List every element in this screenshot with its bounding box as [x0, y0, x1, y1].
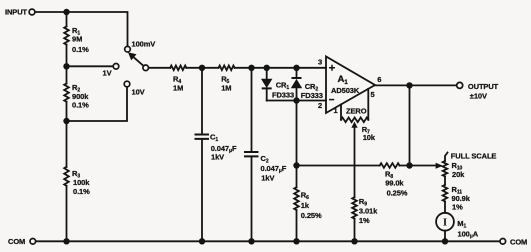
- wire : op-amp output to OUTPUT terminal: [375, 84, 457, 86]
- op-amp U1 A1 AD503K triangle: [326, 57, 375, 114]
- svg-text:0.047μF: 0.047μF: [261, 164, 287, 174]
- node : R1/R2 junction (1V tap): [63, 63, 69, 69]
- svg-text:0.1%: 0.1%: [72, 45, 89, 54]
- node : R6 to common: [293, 238, 299, 244]
- svg-text:FD333: FD333: [301, 91, 323, 100]
- wire : R10 to R11: [444, 176, 446, 184]
- meter M1 100uA: [436, 213, 454, 231]
- op-amp minus input symbol: [329, 99, 334, 101]
- svg-text:0.25%: 0.25%: [387, 189, 408, 198]
- svg-text:1M: 1M: [173, 83, 183, 92]
- svg-text:FD333: FD333: [272, 91, 294, 100]
- svg-text:10k: 10k: [363, 133, 376, 142]
- svg-text:3: 3: [318, 58, 322, 67]
- wiper arrow into R10: [436, 163, 442, 168]
- wire : pin 1 lead down: [340, 104, 342, 119]
- svg-text:1kV: 1kV: [211, 153, 224, 162]
- svg-text:1: 1: [334, 106, 338, 115]
- potentiometer R10 20k FULL SCALE: [445, 153, 448, 162]
- node : main rail to CR1: [264, 65, 270, 71]
- terminal COM left: [30, 239, 36, 245]
- resistor R4 1M: [170, 66, 186, 71]
- wire : diode rail to inverting input (pin 2): [267, 100, 326, 102]
- svg-text:100mV: 100mV: [132, 40, 156, 49]
- svg-text:CR1: CR1: [276, 81, 290, 92]
- resistor R11 90.9k 1%: [443, 185, 448, 202]
- svg-text:M1: M1: [457, 219, 466, 230]
- svg-text:COM: COM: [8, 237, 25, 246]
- terminal OUTPUT +/-10V: [457, 82, 463, 88]
- wire : 1V tap to switch contact: [67, 65, 114, 67]
- wire : main signal rail: [149, 67, 327, 69]
- svg-text:±10V: ±10V: [470, 92, 487, 101]
- switch pole and wiper arrow: [143, 65, 149, 71]
- node : output junction: [406, 82, 412, 88]
- op-amp plus input symbol: [329, 65, 335, 71]
- svg-text:A1: A1: [338, 74, 349, 86]
- resistor R2 900k 0.1%: [64, 84, 69, 102]
- node : C2 to common: [248, 238, 254, 244]
- node : R4/R5 junction (C1): [199, 65, 205, 71]
- node : feedback rail junction at R6 top: [293, 162, 299, 168]
- resistor R1 9M 0.1%: [64, 26, 69, 44]
- svg-text:INPUT: INPUT: [5, 7, 28, 16]
- node : main rail to CR2: [293, 65, 299, 71]
- svg-text:R6: R6: [301, 191, 309, 202]
- node : main rail to C2: [248, 65, 254, 71]
- svg-text:3.01k: 3.01k: [359, 206, 378, 215]
- node : input junction dot: [63, 9, 69, 15]
- svg-text:0.1%: 0.1%: [73, 187, 90, 196]
- wire : CR2 node down through R6 to common: [296, 101, 298, 242]
- terminal INPUT: [29, 9, 35, 15]
- wire : top input rail: [35, 12, 128, 46]
- capacitor C2 0.047uF 1kV: [251, 68, 253, 242]
- svg-text:I: I: [443, 217, 447, 229]
- diode CR2 FD333 (cathode up): [296, 68, 298, 101]
- svg-text:6: 6: [377, 75, 381, 84]
- resistor R6 1k 0.25%: [294, 187, 299, 210]
- wire : feedback rail: [297, 165, 437, 167]
- svg-text:FULL SCALE: FULL SCALE: [451, 151, 497, 160]
- wire : pin 5 lead down: [367, 89, 369, 120]
- diode CR1 FD333 (cathode down): [266, 68, 268, 101]
- resistor R3 100k 0.1%: [64, 167, 69, 186]
- svg-text:1%: 1%: [359, 216, 370, 225]
- potentiometer R7 10k (zero adjust): [341, 118, 368, 123]
- wire : R11 to meter: [444, 201, 446, 212]
- resistor R9 3.01k 1%: [352, 197, 357, 219]
- svg-text:0.25%: 0.25%: [301, 211, 322, 220]
- node : R9 to common: [351, 238, 357, 244]
- svg-text:9M: 9M: [72, 35, 82, 44]
- resistor R5 1M: [219, 66, 235, 71]
- node : CR2 anode junction: [293, 97, 299, 103]
- wire : bottom common rail: [36, 240, 500, 242]
- switch contact 10V: [124, 81, 130, 87]
- svg-text:10V: 10V: [132, 87, 145, 96]
- switch contact 1V: [113, 64, 119, 70]
- svg-text:C2: C2: [261, 154, 269, 165]
- wire : output divider vertical: [409, 85, 411, 165]
- svg-text:OUTPUT: OUTPUT: [468, 82, 499, 91]
- svg-text:20k: 20k: [452, 170, 465, 179]
- node : C1 to common: [199, 238, 205, 244]
- svg-text:ZERO: ZERO: [346, 107, 367, 116]
- svg-text:0.1%: 0.1%: [72, 101, 89, 110]
- node : R3 to common: [63, 238, 69, 244]
- wire : 10V tap wire up to switch contact: [67, 87, 128, 121]
- svg-text:100k: 100k: [73, 178, 90, 187]
- svg-text:AD503K: AD503K: [331, 86, 360, 95]
- svg-text:COM: COM: [510, 238, 527, 247]
- svg-text:1k: 1k: [301, 201, 310, 210]
- resistor R8 99.0k 0.25%: [380, 163, 400, 168]
- svg-text:5: 5: [371, 90, 375, 99]
- svg-text:100μA: 100μA: [458, 229, 479, 239]
- wire : meter to common rail: [444, 231, 446, 242]
- svg-text:1kV: 1kV: [261, 173, 274, 182]
- svg-text:1%: 1%: [452, 203, 463, 212]
- svg-text:2: 2: [318, 101, 322, 110]
- switch contact 100mV: [125, 46, 131, 52]
- node : R8 / divider junction: [406, 162, 412, 168]
- capacitor C1 0.047uF 1kV: [201, 68, 203, 242]
- svg-text:C1: C1: [210, 133, 218, 144]
- node : meter to common: [442, 238, 448, 244]
- svg-text:1V: 1V: [103, 68, 112, 77]
- svg-text:99.0k: 99.0k: [385, 179, 404, 188]
- terminal COM right: [500, 239, 506, 245]
- wire : left branch vertical segments: [66, 12, 68, 241]
- svg-text:1M: 1M: [221, 83, 231, 92]
- node : R2/R3 junction (10V tap): [63, 118, 69, 124]
